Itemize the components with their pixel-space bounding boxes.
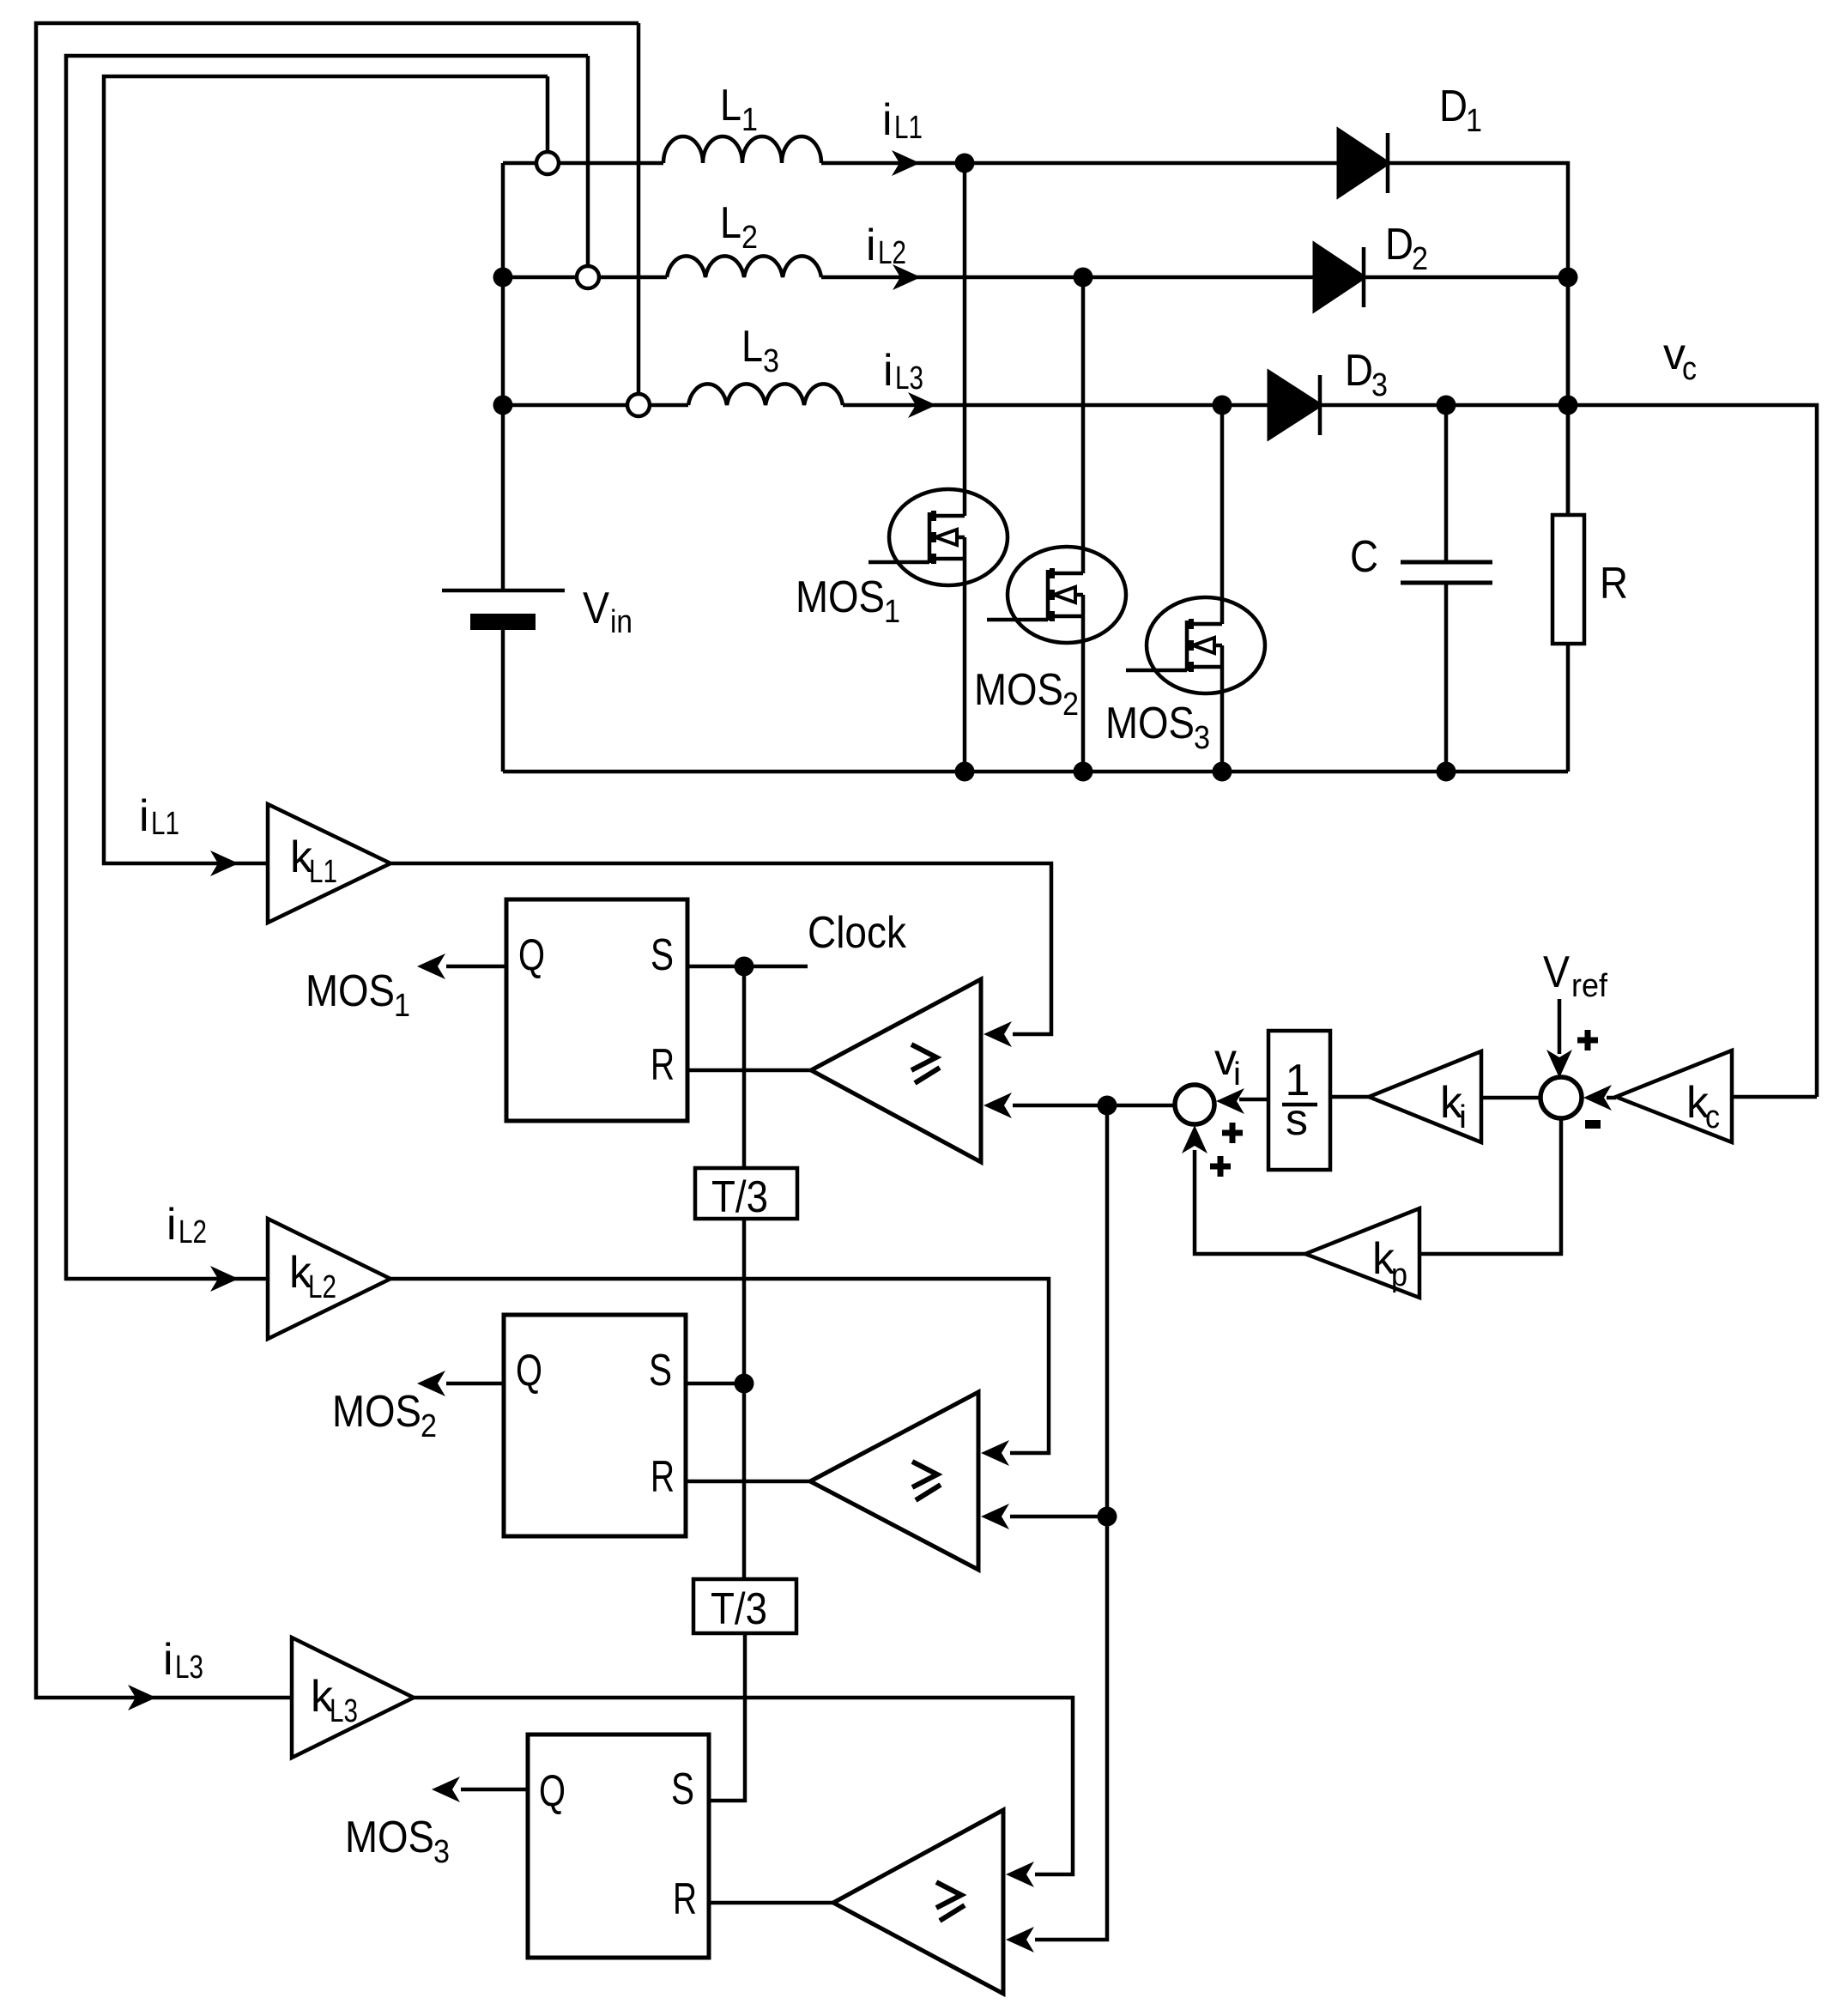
node: supply/L2 junction	[493, 268, 513, 288]
label FF3 R	[673, 1874, 697, 1924]
node: D2/output-bus junction	[1559, 268, 1578, 288]
label C	[1350, 532, 1378, 582]
node: D3 row / R junction vertical	[1566, 277, 1571, 515]
transistor MOS3	[1126, 597, 1265, 693]
SR flip-flop FF3	[528, 1734, 709, 1958]
label FF2 S	[649, 1346, 672, 1395]
wire: k_L2 output to comparator 2 upper input	[390, 1279, 1049, 1466]
svg-text:MOS: MOS	[796, 572, 885, 622]
svg-text:L1: L1	[151, 806, 179, 842]
svg-text:S: S	[651, 930, 674, 980]
svg-text:R: R	[651, 1040, 675, 1090]
label v_i	[1214, 1035, 1241, 1093]
label FF3 S	[671, 1765, 694, 1814]
svg-text:p: p	[1391, 1257, 1407, 1293]
wire: Vref into summing junction 2	[1546, 999, 1572, 1078]
label + (Vref input)	[1577, 1030, 1598, 1050]
svg-text:R: R	[651, 1452, 675, 1502]
svg-text:3: 3	[1194, 720, 1210, 756]
label D2	[1385, 220, 1428, 277]
summing junction S1 (v_i)	[1175, 1085, 1214, 1124]
wire: battery to ground rail	[501, 630, 505, 772]
wire: capacitor C top lead	[1444, 405, 1449, 562]
label D1	[1439, 82, 1482, 139]
integrator 1/s	[1268, 1031, 1330, 1170]
wire: resistor R bottom lead	[1566, 644, 1571, 772]
wire: k_L3 output to comparator 3 upper input	[414, 1698, 1073, 1887]
label Clock	[808, 908, 907, 958]
label L3	[741, 322, 779, 379]
wire: summing junction 2 to k_i	[1481, 1096, 1540, 1100]
label FF2 R	[651, 1452, 675, 1502]
label + (kp input)	[1210, 1156, 1231, 1177]
node: L2/MOS2 drain junction	[1074, 268, 1093, 288]
label - (kc input)	[1585, 1120, 1601, 1129]
wire: MOS1 drain	[963, 163, 967, 516]
svg-text:L: L	[720, 198, 741, 248]
node: clock/S1 junction	[735, 957, 754, 977]
node: L3/MOS3 drain junction	[1213, 396, 1232, 415]
wire: i_L1 current-sense feedback loop (probe on L1 to k_L1 input)	[104, 76, 548, 876]
wire: D3 cathode to v_c output corner	[1320, 405, 1817, 1097]
svg-text:L: L	[741, 322, 763, 372]
label L1	[720, 81, 758, 138]
wire: ground rail	[503, 770, 1568, 774]
label L2	[720, 198, 758, 256]
label MOS1 (gate drive)	[306, 966, 410, 1024]
label D3	[1345, 346, 1388, 403]
diode D2	[1315, 245, 1364, 310]
label FF1 R	[651, 1040, 675, 1090]
label 1/s	[1282, 1056, 1317, 1145]
wire: FF1 S input / clock stub	[687, 965, 808, 969]
svg-text:s: s	[1286, 1095, 1308, 1145]
wire: MOS1 source to rail	[963, 537, 967, 772]
svg-text:R: R	[1600, 559, 1628, 608]
svg-text:L3: L3	[175, 1650, 203, 1686]
svg-text:1: 1	[1466, 103, 1482, 139]
label FF1 Q	[518, 930, 545, 980]
svg-text:1: 1	[741, 102, 758, 138]
comparator CMP2	[810, 1392, 978, 1570]
svg-text:V: V	[583, 584, 609, 633]
wire: D2 cathode to output bus	[1364, 275, 1568, 280]
delay block T/3 (first)	[695, 1168, 797, 1219]
wire: FF2 R input from comparator 2	[686, 1480, 810, 1484]
label T/3 (first)	[711, 1172, 768, 1222]
transistor MOS1	[869, 489, 1008, 585]
wire: MOS3 drain	[1220, 405, 1225, 624]
node: MOS1 source/rail	[955, 762, 975, 782]
wire: clock delay chain middle	[742, 1219, 747, 1579]
inductor L2	[667, 256, 821, 277]
svg-text:2: 2	[741, 220, 758, 256]
svg-text:V: V	[1543, 947, 1570, 997]
svg-text:T/3: T/3	[711, 1172, 768, 1222]
svg-text:MOS: MOS	[345, 1813, 434, 1862]
label FF3 Q	[539, 1766, 566, 1816]
label MOS2 (circuit)	[974, 665, 1079, 723]
label i_L3 (control)	[163, 1635, 203, 1686]
label MOS2 (gate drive)	[332, 1387, 437, 1444]
node: L1/MOS1 drain junction	[955, 154, 975, 173]
wire: FF2 Q output to MOS2 gate	[417, 1371, 504, 1396]
svg-text:L3: L3	[330, 1693, 358, 1729]
svg-text:2: 2	[421, 1408, 437, 1444]
gain k_L1	[268, 804, 390, 923]
svg-text:T/3: T/3	[711, 1584, 767, 1634]
label i_L2 (control)	[166, 1200, 207, 1250]
label k_p	[1372, 1234, 1407, 1293]
wire: FF3 Q output to MOS3 gate	[432, 1777, 528, 1802]
svg-text:in: in	[610, 604, 632, 640]
battery Vin negative plate	[470, 614, 536, 630]
wire: input node to L1	[503, 163, 663, 590]
delay block T/3 (second)	[693, 1579, 796, 1633]
label R	[1600, 559, 1628, 608]
svg-text:2: 2	[1412, 241, 1428, 277]
node: capacitor/rail	[1437, 762, 1456, 782]
node: output bus/load junction	[1559, 396, 1578, 415]
wire: L1 to D1 anode with i_L1 arrow	[821, 150, 1339, 176]
gain k_c	[1616, 1050, 1732, 1142]
resistor R	[1552, 515, 1584, 644]
capacitor C	[1401, 562, 1492, 583]
node: D3/capacitor junction	[1437, 396, 1456, 415]
wire: v_i distribution to comparators	[1006, 1105, 1107, 1952]
svg-text:MOS: MOS	[332, 1387, 421, 1437]
label k_c	[1686, 1078, 1720, 1135]
svg-text:MOS: MOS	[1105, 699, 1195, 748]
wire: k_i output to integrator	[1330, 1095, 1369, 1099]
SR flip-flop FF1	[506, 899, 687, 1121]
wire: FF1 R input from comparator 1	[687, 1069, 811, 1073]
svg-text:L2: L2	[308, 1269, 336, 1305]
svg-text:Q: Q	[539, 1766, 566, 1816]
wire: L2 to D2 anode with i_L2 arrow	[821, 264, 1315, 290]
svg-text:S: S	[671, 1765, 694, 1814]
wire: error to k_p input	[1419, 1118, 1561, 1254]
label k_L1	[290, 832, 337, 890]
gain k_L3	[292, 1638, 414, 1758]
wire: k_L1 output to comparator 1 upper input	[390, 863, 1051, 1047]
wire: input node to L3	[503, 403, 688, 408]
inductor L1	[663, 136, 821, 163]
svg-text:1: 1	[884, 594, 900, 630]
node: supply/L3 junction	[493, 396, 513, 415]
comparator CMP3	[833, 1810, 1003, 1994]
svg-text:S: S	[649, 1346, 672, 1395]
gain k_i	[1369, 1051, 1481, 1142]
svg-text:L: L	[720, 81, 741, 130]
wire: MOS2 drain	[1081, 277, 1086, 573]
current probe on L2 (i_L2 pickoff)	[577, 266, 599, 288]
wire: FF3 R input from comparator 3	[709, 1901, 833, 1905]
wire: v_i to comparator 2 lower input	[981, 1504, 1107, 1529]
label T/3 (second)	[711, 1584, 767, 1634]
svg-text:L1: L1	[309, 854, 337, 890]
svg-text:i: i	[1233, 1056, 1241, 1093]
wire: FF2 S input	[686, 1382, 744, 1386]
label i_L3 (top)	[883, 346, 923, 397]
wire: input node to L2	[503, 275, 667, 280]
label FF2 Q	[516, 1346, 542, 1395]
label i_L1 (top)	[882, 95, 923, 146]
svg-text:3: 3	[1371, 367, 1388, 403]
label k_L2	[289, 1248, 336, 1305]
label MOS3 (gate drive)	[345, 1813, 450, 1870]
wire: D1 cathode to output bus	[1388, 163, 1568, 515]
wire: k_c output into summing junction 2	[1583, 1085, 1616, 1111]
svg-text:D: D	[1345, 346, 1373, 396]
diode D3	[1269, 372, 1320, 438]
svg-text:Clock: Clock	[808, 908, 907, 958]
svg-text:i: i	[139, 791, 149, 841]
svg-text:ref: ref	[1571, 968, 1607, 1004]
transistor MOS2	[987, 547, 1126, 643]
svg-text:i: i	[166, 1200, 177, 1250]
label k_i	[1440, 1078, 1467, 1135]
svg-text:1: 1	[394, 988, 410, 1024]
svg-text:3: 3	[763, 343, 779, 379]
label MOS1 (circuit)	[796, 572, 900, 630]
node: clock/S2 junction	[735, 1374, 754, 1394]
wire: i_L3 current-sense feedback loop (probe on L3 to k_L3 input)	[36, 23, 639, 1710]
label i_L2 (top)	[866, 221, 906, 271]
current probe on L1 (i_L1 pickoff)	[536, 152, 559, 174]
svg-text:i: i	[1459, 1099, 1467, 1135]
comparator CMP1	[811, 979, 981, 1162]
label v_c	[1663, 330, 1697, 387]
current probe on L3 (i_L3 pickoff)	[627, 394, 650, 416]
svg-text:Q: Q	[518, 930, 545, 980]
wire: v_c feedback into k_c	[1732, 1095, 1817, 1099]
svg-text:MOS: MOS	[306, 966, 395, 1016]
node: MOS2 source/rail	[1074, 762, 1093, 782]
svg-text:L2: L2	[179, 1214, 207, 1250]
wire: clock delay chain lower to FF3 S	[709, 1633, 745, 1801]
diode D1	[1339, 130, 1388, 196]
SR flip-flop FF2	[504, 1315, 686, 1536]
node: MOS3 source/rail	[1213, 762, 1232, 782]
svg-text:L1: L1	[894, 110, 923, 146]
svg-text:c: c	[1682, 351, 1697, 387]
svg-text:i: i	[163, 1635, 173, 1685]
svg-text:R: R	[673, 1874, 697, 1924]
wire: i_L2 current-sense feedback loop (probe on L2 to k_L2 input)	[66, 56, 588, 1292]
svg-text:2: 2	[1062, 687, 1079, 723]
summing junction S2 (Vref error)	[1540, 1077, 1582, 1118]
label i_L1 (control)	[139, 791, 179, 842]
wire: L3 to D3 anode with i_L3 arrow	[843, 392, 1269, 418]
wire: integrator output into summing junction 1	[1216, 1088, 1268, 1114]
svg-text:i: i	[882, 95, 893, 145]
svg-text:C: C	[1350, 532, 1378, 582]
svg-text:D: D	[1385, 220, 1413, 269]
svg-text:Q: Q	[516, 1346, 542, 1395]
svg-text:3: 3	[433, 1834, 450, 1870]
gain k_L2	[268, 1219, 390, 1339]
label FF1 S	[651, 930, 674, 980]
battery Vin positive plate	[442, 589, 565, 593]
gain k_p	[1305, 1208, 1419, 1298]
svg-text:MOS: MOS	[974, 665, 1063, 715]
label Vref	[1543, 947, 1607, 1004]
wire: capacitor C bottom lead	[1444, 583, 1449, 772]
svg-text:i: i	[866, 221, 876, 270]
wire: MOS2 source to rail	[1081, 595, 1086, 772]
wire: k_p output into summing junction 1	[1182, 1125, 1305, 1254]
node: v_i line at comparator 2	[1098, 1507, 1117, 1527]
svg-text:c: c	[1705, 1099, 1720, 1135]
svg-text:L3: L3	[895, 360, 923, 397]
inductor L3	[688, 384, 843, 405]
wire: summing junction 1 output to comparators	[984, 1093, 1175, 1118]
svg-text:i: i	[883, 346, 893, 396]
wire: MOS3 source to rail	[1220, 645, 1225, 772]
label k_L3	[311, 1672, 358, 1729]
svg-text:L2: L2	[878, 235, 906, 271]
svg-text:D: D	[1439, 82, 1468, 131]
wire: clock delay chain upper	[742, 966, 747, 1168]
wire: FF1 Q output to MOS1 gate	[417, 954, 506, 979]
label Vin	[583, 584, 632, 640]
node: v_i line at comparator 1	[1098, 1096, 1117, 1116]
label MOS3 (circuit)	[1105, 699, 1210, 756]
label + (integrator input)	[1222, 1123, 1243, 1143]
